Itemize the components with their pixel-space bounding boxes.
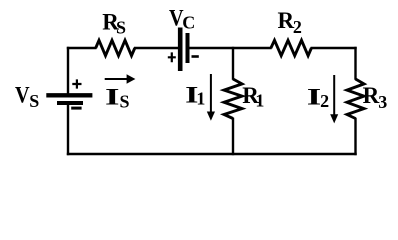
svg-text:I: I — [105, 85, 120, 110]
svg-text:1: 1 — [255, 90, 264, 110]
svg-text:2: 2 — [293, 17, 302, 37]
svg-text:3: 3 — [378, 92, 387, 112]
svg-text:S: S — [120, 92, 130, 112]
svg-text:C: C — [182, 13, 195, 33]
svg-text:R: R — [363, 83, 380, 108]
svg-text:2: 2 — [320, 91, 329, 111]
svg-text:1: 1 — [196, 89, 205, 109]
svg-text:V: V — [15, 83, 30, 108]
svg-text:S: S — [29, 91, 39, 111]
svg-text:S: S — [116, 17, 126, 37]
